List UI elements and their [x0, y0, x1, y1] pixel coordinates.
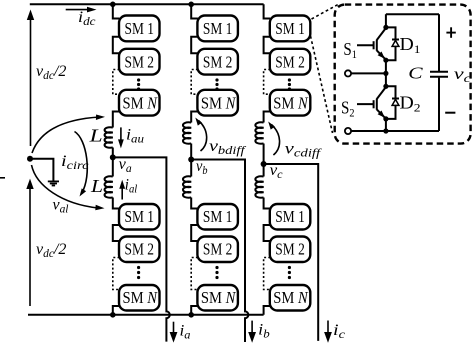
svg-text:SM N: SM N [123, 93, 158, 112]
SM 2 lower a [119, 237, 160, 263]
node midpoint [27, 156, 33, 162]
wire bus corner to SM1 c [264, 4, 271, 18]
SM N upper c [270, 90, 311, 116]
svg-text:SM 2: SM 2 [125, 240, 155, 259]
svg-text:SM 1: SM 1 [125, 207, 155, 226]
svg-text:SM N: SM N [273, 93, 308, 112]
junction dot S2 top [383, 84, 388, 89]
wire inductor to node c [263, 144, 265, 165]
IGBT S1 gate lead [357, 44, 374, 46]
midpoint terminal wire [351, 72, 386, 74]
ellipsis upper a [137, 78, 140, 90]
diode D2 branch [386, 86, 396, 119]
v_cdiff arc arrow [268, 122, 279, 156]
svg-text:SM 1: SM 1 [203, 19, 233, 38]
i_al arrow [119, 180, 125, 200]
midline wire mid [385, 60, 387, 87]
SM 1 lower c [270, 204, 311, 230]
i_dc arrow [66, 7, 97, 13]
wire inductor to SM1 lower a [113, 198, 120, 209]
wire SMN to inductor b [191, 112, 198, 123]
lower vdc/2 measure arrow [26, 179, 33, 306]
diode D1 branch [386, 27, 396, 60]
svg-text:SM 2: SM 2 [275, 52, 305, 71]
bottom terminal circle [345, 128, 351, 134]
IGBT S1 body bar [376, 40, 378, 51]
inductor L lower a [105, 176, 113, 197]
SM 2 upper c [270, 49, 311, 75]
node v_b dot [188, 157, 194, 163]
midline wire top [385, 14, 387, 28]
callout dashed line lower [311, 36, 333, 133]
i_au arrow [118, 127, 124, 148]
ellipsis lower a [137, 266, 140, 279]
output wire c [264, 164, 319, 341]
IGBT S2 gate lead [357, 103, 374, 105]
wire node to lower inductor a [112, 157, 114, 176]
wire SMN to bottom bus a [113, 306, 120, 315]
IGBT S2 emitter diagonal with arrow [377, 109, 386, 118]
wire SM1-SM2 b [191, 37, 198, 53]
ellipsis lower b [215, 266, 218, 279]
plus sign [446, 27, 455, 38]
svg-text:SM 1: SM 1 [275, 207, 305, 226]
node v_c dot [261, 161, 267, 167]
diode D1 symbol [392, 39, 399, 41]
dotted wire SM2-SMN lower c [264, 258, 271, 290]
midpoint junction dot [383, 71, 388, 76]
SM 1 lower a [119, 204, 160, 230]
svg-text:SM 2: SM 2 [275, 240, 305, 259]
i_circ arc arrow [75, 132, 88, 197]
ellipsis upper b [215, 78, 218, 90]
ellipsis lower c [288, 266, 291, 279]
node dot bottom bus a [110, 312, 116, 318]
i_b output arrow [248, 321, 256, 343]
SM 2 upper a [119, 49, 160, 75]
dotted wire SM2-SMN b [191, 70, 198, 95]
upper vdc/2 measure arrow [27, 10, 34, 147]
capacitor C branch [438, 14, 440, 71]
wire bus to SM1 [113, 4, 120, 18]
ground [48, 181, 59, 185]
SM 1 upper a [119, 16, 160, 42]
svg-text:SM 1: SM 1 [275, 19, 305, 38]
IGBT S1 emitter diagonal with arrow [377, 50, 386, 59]
wire SM1-SM2 lower a [113, 225, 120, 241]
minus tick at left edge [0, 177, 5, 179]
SM 2 lower c [270, 237, 311, 263]
SM N lower c [270, 285, 311, 311]
diode D2 symbol [392, 98, 399, 100]
node dot bottom bus b [188, 312, 194, 318]
inductor upper b [183, 122, 191, 143]
SM 1 upper c [270, 16, 311, 42]
IGBT S1 collector diagonal [377, 28, 386, 40]
wire SMN to bottom bus b [191, 306, 198, 315]
IGBT S1 gate bar [373, 41, 375, 49]
output wire a with hop over bus [113, 157, 170, 341]
SM 2 lower b [197, 237, 238, 263]
svg-text:SM 2: SM 2 [203, 52, 233, 71]
SM N lower b [197, 285, 238, 311]
svg-text:SM N: SM N [201, 288, 236, 307]
top dc bus [30, 3, 264, 5]
bottom rail [351, 130, 439, 132]
junction dot S1 top [383, 25, 388, 30]
wire bus to SM1 b [191, 4, 198, 18]
midpoint terminal circle [345, 70, 351, 76]
svg-text:SM N: SM N [123, 288, 158, 307]
inductor L upper a [105, 127, 113, 147]
svg-text:SM 1: SM 1 [125, 19, 155, 38]
svg-text:SM N: SM N [201, 93, 236, 112]
top rail [386, 13, 439, 15]
output wire b with hop over bus [191, 160, 248, 343]
dashed detail box [335, 5, 471, 144]
dotted wire SM2-SMN lower a [113, 258, 120, 290]
wire SM1-SM2 c [264, 37, 271, 53]
i_a output arrow [170, 322, 178, 343]
dotted wire SM2-SMN lower b [191, 258, 198, 290]
inductor lower b [183, 176, 191, 197]
dotted wire SM2-SMN c [264, 70, 271, 95]
wire SMN to inductor a [113, 112, 120, 128]
svg-text:L: L [90, 177, 103, 197]
SM N lower a [119, 285, 160, 311]
svg-text:SM 1: SM 1 [203, 207, 233, 226]
junction dot S1 bottom [383, 58, 388, 63]
v_al arc arrow [32, 165, 105, 210]
callout dashed line upper [312, 5, 339, 20]
SM 1 lower b [197, 204, 238, 230]
wire inductor to node a [112, 148, 114, 158]
minus sign [445, 112, 455, 114]
svg-text:C: C [408, 65, 423, 83]
wire inductor to SM1 lower c [264, 198, 271, 209]
wire to ground [30, 159, 53, 182]
wire SM1-SM2 a [113, 37, 120, 53]
i_c output arrow [324, 321, 332, 343]
IGBT S2 gate bar [373, 100, 375, 108]
node dot top bus phase b [188, 2, 194, 8]
svg-text:L: L [88, 125, 102, 146]
wire inductor to SM1 lower b [191, 198, 198, 209]
SM N upper b [197, 90, 238, 116]
inductor lower c [255, 176, 263, 197]
IGBT S2 body bar [376, 99, 378, 110]
svg-text:SM 2: SM 2 [125, 52, 155, 71]
dotted wire SM2-SMN a [113, 70, 120, 95]
bottom dc bus [28, 314, 264, 316]
SM 2 upper b [197, 49, 238, 75]
node dot top bus phase a [110, 2, 116, 8]
v_bdiff arc arrow [195, 118, 206, 152]
svg-text:SM N: SM N [273, 288, 308, 307]
wire SM1-SM2 lower c [264, 225, 271, 241]
wire node to lower inductor c [263, 164, 265, 177]
SM 1 upper b [197, 16, 238, 42]
inductor upper c [255, 122, 263, 143]
svg-text:SM 2: SM 2 [203, 240, 233, 259]
wire SMN to bottom bus c [264, 306, 271, 315]
wire SMN to inductor c [264, 112, 271, 123]
IGBT S2 collector diagonal [377, 87, 386, 99]
bottom rail junction dot [383, 128, 388, 133]
SM N upper a [119, 90, 160, 116]
midline wire bottom [385, 119, 387, 131]
node v_a dot [110, 154, 116, 160]
wire node to lower inductor b [190, 160, 192, 177]
arc arrow to upper arm [32, 115, 105, 154]
junction dot S2 bottom [383, 116, 388, 121]
wire inductor to node b [190, 144, 192, 160]
wire SM1-SM2 lower b [191, 225, 198, 241]
ellipsis upper c [288, 78, 291, 90]
